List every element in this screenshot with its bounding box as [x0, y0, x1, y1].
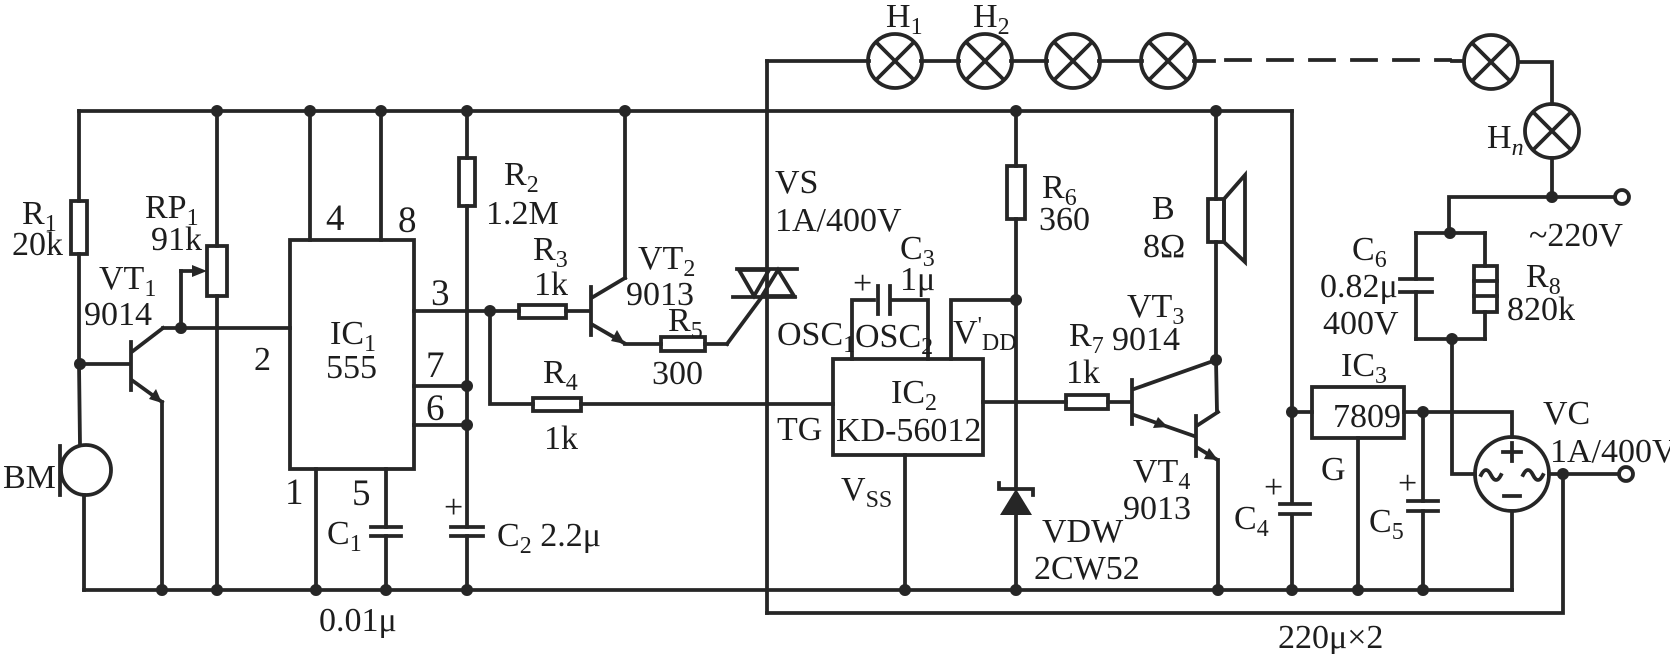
- wire: AC live node to terminal: [1552, 195, 1614, 199]
- capacitor C1: [319, 515, 401, 639]
- svg-text:G: G: [1321, 451, 1346, 488]
- svg-text:1μ: 1μ: [900, 261, 935, 298]
- svg-text:820k: 820k: [1507, 291, 1575, 328]
- svg-text:KD-56012: KD-56012: [836, 412, 981, 449]
- label: 220u x2: [1278, 619, 1383, 654]
- wire: base wire to VT1: [80, 362, 129, 366]
- svg-text:6: 6: [426, 388, 445, 429]
- resistor R7: [1066, 317, 1130, 409]
- svg-text:5: 5: [352, 473, 371, 514]
- wire: ground rail: [84, 588, 1512, 592]
- terminal VC output: [1619, 467, 1633, 481]
- wire: R2 bottom down through pins 7/6 node to C2: [465, 206, 469, 527]
- svg-text:91k: 91k: [151, 221, 202, 258]
- wire: AC live node left and down to C6/R8: [1444, 197, 1552, 239]
- op-amp IC1 555 timer: [290, 240, 414, 469]
- wire: VT1 collector to IC1 pin 2: [163, 328, 290, 378]
- capacitor C5: [1369, 412, 1438, 596]
- wire: VT1 emitter down to ground: [160, 402, 164, 590]
- pin VDD stub: [951, 300, 1017, 359]
- triac VS: [733, 164, 902, 297]
- wire: pin 6 stub: [414, 388, 473, 431]
- wire: solid then dashed continuation: [1194, 60, 1464, 61]
- svg-text:0.82μ: 0.82μ: [1320, 268, 1398, 305]
- transistor VT4: [1123, 412, 1218, 527]
- transistor VT3: [1112, 288, 1216, 436]
- svg-text:9013: 9013: [1123, 490, 1191, 527]
- resistor R6: [1007, 105, 1090, 300]
- wire: 7809 ground pin G: [1321, 438, 1364, 596]
- microphone BM: [3, 445, 111, 496]
- svg-text:7: 7: [426, 345, 445, 386]
- wire: pin 5 down to C1: [352, 469, 386, 527]
- bridge rectifier VC: [1475, 395, 1670, 511]
- svg-text:360: 360: [1039, 201, 1090, 238]
- wire: pin 8 to rail: [375, 105, 417, 241]
- wire: +V top rail: [79, 109, 1292, 113]
- resistor R8: [1416, 233, 1575, 339]
- lamp H2: [958, 0, 1012, 88]
- svg-text:+: +: [1398, 465, 1417, 502]
- svg-text:220μ×2: 220μ×2: [1278, 619, 1383, 654]
- pin OSC1 stub: [777, 300, 874, 359]
- zener diode VDW 2CW52: [999, 483, 1140, 596]
- svg-text:300: 300: [652, 355, 703, 392]
- wire: [1099, 59, 1142, 63]
- svg-text:1A/400V: 1A/400V: [1550, 433, 1670, 470]
- pin OSC2 stub: [855, 300, 933, 360]
- wire: pin 3 output: [414, 273, 496, 317]
- wire: gate lead to triac VS: [727, 298, 761, 344]
- svg-text:1.2M: 1.2M: [486, 195, 559, 232]
- transistor VT2: [591, 240, 695, 344]
- svg-text:C2 2.2μ: C2 2.2μ: [497, 517, 601, 559]
- wire: [921, 59, 959, 63]
- wire: 7809 right lead to bridge plus: [1404, 406, 1512, 437]
- capacitor C4: [1234, 469, 1310, 596]
- node: VDD junction: [1010, 294, 1022, 306]
- lamp 5: [1464, 35, 1518, 89]
- wire: to lamp Hn: [1518, 62, 1552, 104]
- regulator IC3 7809: [1312, 347, 1404, 438]
- wire: left branch down from rail to R1: [77, 111, 81, 201]
- node: VT1 base tee: [74, 358, 86, 370]
- svg-text:9014: 9014: [1112, 321, 1180, 358]
- transistor VT1: [84, 260, 163, 403]
- svg-text:9014: 9014: [84, 296, 152, 333]
- resistor R5: [625, 302, 727, 392]
- capacitor C3: [853, 230, 935, 314]
- wire: pin 1 to ground: [285, 469, 322, 596]
- wire: pin 7 stub: [414, 345, 473, 392]
- wire: [1011, 59, 1047, 63]
- wire: IC2 output to R7: [983, 400, 1066, 404]
- svg-text:20k: 20k: [12, 226, 63, 263]
- capacitor C2: [444, 489, 601, 596]
- pin VSS to ground: [841, 455, 911, 596]
- svg-text:+: +: [1264, 469, 1283, 506]
- svg-text:1k: 1k: [1066, 354, 1100, 391]
- node: wiper to pin2 wire: [175, 322, 187, 334]
- speaker B: [1143, 105, 1245, 360]
- svg-text:+: +: [444, 489, 463, 526]
- svg-text:BM: BM: [3, 459, 56, 496]
- svg-text:2CW52: 2CW52: [1034, 550, 1140, 587]
- wire: BM bottom to ground rail: [82, 495, 86, 590]
- wire: rail right end down to regulator input node: [1286, 111, 1298, 503]
- wire: 7809 left lead: [1292, 410, 1312, 414]
- svg-text:3: 3: [431, 273, 450, 314]
- wire: triac vertical from lamp line down to AC return: [765, 61, 769, 613]
- wire: bridge minus down to ground rail: [1510, 511, 1514, 590]
- op-amp IC2 KD-56012 sound chip: [777, 359, 983, 455]
- lamp 4: [1141, 34, 1195, 88]
- lamp H1: [868, 0, 923, 88]
- svg-text:VS: VS: [775, 164, 818, 201]
- wire: collector node down from speaker: [1210, 354, 1222, 412]
- wire: C6/R8 bottom node down to bridge AC left: [1446, 333, 1475, 474]
- svg-text:VDW: VDW: [1042, 513, 1124, 550]
- lamp Hn: [1487, 104, 1579, 161]
- svg-text:1k: 1k: [534, 266, 568, 303]
- wire: pin 4 to rail: [304, 105, 345, 240]
- svg-text:1A/400V: 1A/400V: [775, 202, 902, 239]
- svg-text:2: 2: [254, 341, 271, 378]
- svg-text:VC: VC: [1543, 395, 1590, 432]
- node: VT1 emitter ground: [156, 584, 168, 596]
- svg-text:B: B: [1152, 190, 1175, 227]
- svg-text:TG: TG: [777, 411, 822, 448]
- svg-text:4: 4: [326, 198, 345, 239]
- svg-text:7809: 7809: [1333, 398, 1401, 435]
- wire: bridge right to output terminal: [1549, 468, 1619, 480]
- resistor R4: [490, 311, 833, 457]
- capacitor C6 (with R8 parallel): [1320, 231, 1485, 342]
- wire: lamp row feed: [767, 59, 869, 63]
- wire: VDD line down to zener: [1014, 300, 1018, 489]
- svg-text:8Ω: 8Ω: [1143, 228, 1185, 265]
- node: rail RP1: [211, 105, 223, 117]
- svg-text:8: 8: [398, 200, 417, 241]
- wire: AC return line: [767, 474, 1563, 613]
- svg-text:1: 1: [285, 472, 304, 513]
- svg-text:+: +: [853, 265, 872, 302]
- terminal ~220V: [1529, 190, 1629, 254]
- svg-text:1k: 1k: [544, 420, 578, 457]
- resistor R2: [459, 105, 559, 232]
- resistor R1: [12, 195, 87, 263]
- wire: VT2 collector up to rail: [619, 105, 631, 278]
- svg-text:~220V: ~220V: [1529, 217, 1623, 254]
- svg-text:0.01μ: 0.01μ: [319, 602, 397, 639]
- svg-text:400V: 400V: [1323, 305, 1399, 342]
- resistor R3: [490, 231, 588, 318]
- lamp 3: [1046, 34, 1100, 88]
- wire: VT4 emitter to ground: [1212, 460, 1224, 596]
- node: RP1 ground: [211, 584, 223, 596]
- wire: Hn to AC live node: [1546, 158, 1558, 203]
- wire: R1 bottom to BM top, base tee: [79, 254, 80, 445]
- svg-text:555: 555: [326, 349, 377, 386]
- potentiometer RP1: [145, 111, 227, 590]
